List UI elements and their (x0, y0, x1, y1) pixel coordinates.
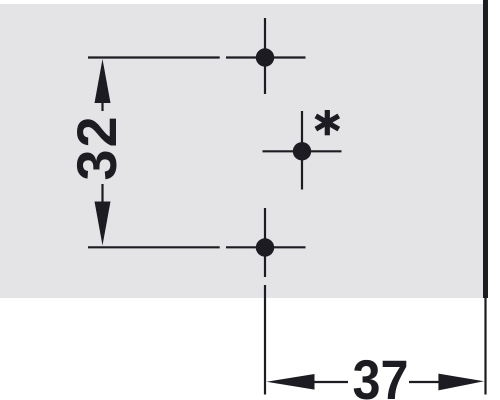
svg-text:32: 32 (65, 114, 128, 180)
svg-text:37: 37 (353, 348, 409, 400)
